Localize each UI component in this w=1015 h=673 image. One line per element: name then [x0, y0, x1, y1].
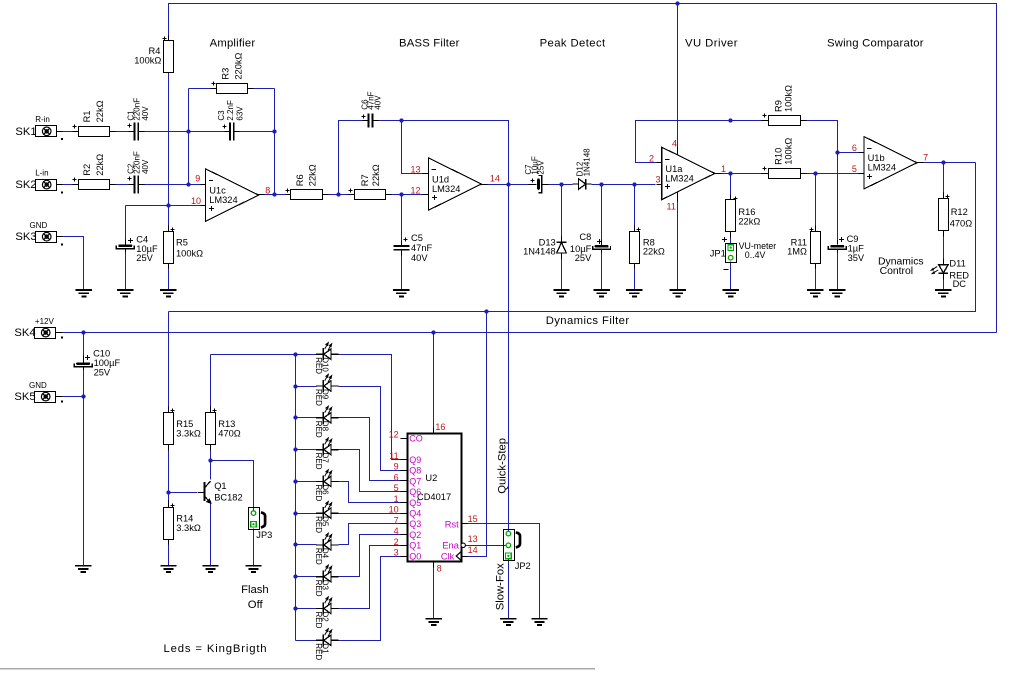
- svg-text:R5: R5: [176, 238, 188, 248]
- svg-text:22kΩ: 22kΩ: [95, 154, 105, 176]
- svg-text:4: 4: [672, 138, 677, 148]
- wire feedback top row to U1d output column: [402, 121, 509, 185]
- wire D7 anode to U2: [339, 450, 401, 492]
- wire D3 cathode to bus: [296, 576, 317, 578]
- svg-text:C8: C8: [579, 232, 591, 242]
- junction LED bus at D6 row: [293, 479, 297, 483]
- wire R4 column down to U1c pin10 node: [168, 73, 170, 206]
- junction U1b output / R12 column: [941, 160, 945, 164]
- resistor R3: [217, 84, 248, 94]
- wire SK3 to ground: [63, 237, 84, 291]
- svg-text:Quick-Step: Quick-Step: [497, 438, 509, 494]
- connector SK4: [35, 328, 56, 339]
- wire R-in row SK1 to C1: [63, 131, 73, 133]
- ground: [670, 290, 686, 296]
- svg-text:1N4148: 1N4148: [523, 246, 556, 256]
- svg-text:JP3: JP3: [256, 530, 272, 540]
- U2 pin 11 Q9: [401, 459, 408, 461]
- svg-text:Q8: Q8: [409, 466, 421, 476]
- svg-text:U1b: U1b: [868, 153, 885, 163]
- svg-text:Q9: Q9: [409, 455, 421, 465]
- svg-text:R-in: R-in: [35, 115, 50, 124]
- svg-text:U1a: U1a: [665, 164, 683, 174]
- resistor R12: [939, 199, 949, 231]
- svg-text:6: 6: [394, 472, 399, 482]
- wire C3 right to feedback node: [240, 131, 275, 133]
- svg-text:SK5: SK5: [14, 391, 35, 403]
- junction U1d output / JP2 column: [506, 182, 510, 186]
- junction collector/JP3 node: [208, 458, 212, 462]
- svg-text:8: 8: [437, 564, 442, 574]
- resistor R1: [79, 127, 110, 137]
- LED D3: [316, 565, 339, 583]
- svg-text:R7: R7: [360, 174, 370, 186]
- ground: [202, 566, 218, 572]
- svg-text:R3: R3: [221, 68, 231, 80]
- junction R6/R7/C6 node: [336, 192, 340, 196]
- LED D2: [316, 597, 339, 615]
- wire D11 to ground: [943, 280, 945, 291]
- svg-text:5: 5: [852, 164, 857, 174]
- svg-text:RED: RED: [314, 484, 323, 501]
- svg-text:RED: RED: [314, 580, 323, 597]
- ground: [76, 290, 92, 296]
- svg-text:GND: GND: [29, 381, 47, 390]
- wire U1a pin2 loop: [636, 121, 731, 163]
- junction LED bus at D7 row: [293, 447, 297, 451]
- wire U1a pin4 to top: [677, 4, 679, 147]
- junction R11 tap on pin5 row: [813, 171, 817, 175]
- svg-text:3: 3: [394, 548, 399, 558]
- resistor R2: [79, 180, 110, 190]
- svg-text:R6: R6: [295, 174, 305, 186]
- wire R15 to base node: [168, 451, 170, 501]
- svg-text:LM324: LM324: [665, 173, 693, 183]
- svg-text:U1d: U1d: [432, 174, 449, 184]
- capacitor C2: [135, 176, 139, 194]
- ground: [393, 290, 409, 296]
- svg-text:Q2: Q2: [409, 530, 421, 540]
- svg-text:R9: R9: [774, 100, 784, 112]
- svg-text:Rst: Rst: [445, 519, 459, 529]
- junction LED bus at D8 row: [293, 415, 297, 419]
- wire R9 right to U1b pin6 column: [807, 121, 838, 153]
- capacitor C6: [368, 114, 372, 128]
- svg-text:Slow-Fox: Slow-Fox: [495, 563, 507, 610]
- svg-text:SK3: SK3: [15, 231, 36, 243]
- capacitor C1: [135, 122, 139, 140]
- junction U1a pin4 tap on top wire: [675, 1, 679, 5]
- wire C7 to D13 node: [543, 184, 573, 186]
- resistor R10: [769, 169, 801, 179]
- capacitor C5: [393, 246, 409, 250]
- resistor R6: [291, 190, 323, 200]
- svg-text:47nF: 47nF: [411, 243, 433, 253]
- jumper JP3: [249, 508, 260, 530]
- wire R8 column: [634, 185, 636, 226]
- junction R-in row / feedback column: [186, 129, 190, 133]
- junction LED bus at D5 row: [293, 511, 297, 515]
- svg-text:3.3kΩ: 3.3kΩ: [176, 428, 201, 438]
- svg-text:Swing Comparator: Swing Comparator: [827, 37, 924, 49]
- wire D2 cathode to bus: [296, 608, 317, 610]
- svg-text:7: 7: [923, 152, 928, 162]
- resistor R5: [164, 232, 174, 264]
- ground: [829, 290, 845, 296]
- svg-text:9: 9: [394, 462, 399, 472]
- wire D10 cathode to bus: [296, 354, 317, 356]
- svg-text:LM324: LM324: [868, 163, 896, 173]
- svg-text:25V: 25V: [136, 253, 153, 263]
- svg-text:1: 1: [394, 494, 399, 504]
- svg-text:C5: C5: [411, 233, 423, 243]
- svg-text:25V: 25V: [94, 367, 111, 377]
- svg-text:D11: D11: [949, 259, 965, 269]
- wire L-in row SK2 to C2: [63, 184, 73, 186]
- svg-text:LM324: LM324: [432, 184, 460, 194]
- svg-text:RED: RED: [314, 357, 323, 374]
- resistor R4: [164, 41, 174, 73]
- wire C1 to C3 row: [145, 131, 225, 133]
- wire D1 cathode to bus: [296, 640, 317, 642]
- wire U1d output node: [488, 184, 529, 186]
- resistor R13: [206, 413, 216, 445]
- connector SK3: [36, 232, 57, 243]
- LED D11: [931, 258, 948, 279]
- svg-text:GND: GND: [30, 221, 48, 230]
- svg-text:16: 16: [435, 422, 445, 432]
- op-amp U1c: [206, 169, 259, 221]
- U2 pin 3 Q0: [401, 556, 408, 558]
- svg-text:Flash: Flash: [241, 584, 269, 596]
- svg-text:RED: RED: [314, 643, 323, 660]
- svg-text:Clk: Clk: [441, 551, 455, 561]
- svg-text:Q3: Q3: [409, 519, 421, 529]
- jumper JP1: [726, 244, 737, 263]
- resistor R14: [164, 508, 174, 540]
- wire U2 pin16 column: [433, 333, 435, 428]
- LED D1: [316, 629, 339, 647]
- svg-text:Q6: Q6: [409, 487, 421, 497]
- svg-text:22kΩ: 22kΩ: [308, 164, 318, 186]
- wire C8 column: [601, 185, 603, 240]
- junction LED bus at D3 row: [293, 574, 297, 578]
- op-amp U1b: [864, 137, 917, 189]
- svg-text:100kΩ: 100kΩ: [784, 138, 794, 165]
- LED D4: [316, 533, 339, 551]
- wire D9 anode to U2: [339, 387, 401, 471]
- IC U2 CD4017: [408, 434, 462, 562]
- diode D13: [557, 236, 567, 259]
- svg-text:Q4: Q4: [409, 509, 421, 519]
- op-amp U1a: [662, 147, 715, 199]
- ground: [593, 290, 609, 296]
- junction U1c output node: [272, 192, 276, 196]
- svg-text:C3: C3: [217, 110, 226, 121]
- svg-text:R10: R10: [774, 148, 784, 165]
- svg-text:1N4148: 1N4148: [582, 148, 591, 177]
- svg-text:7: 7: [394, 515, 399, 525]
- svg-text:12: 12: [410, 186, 420, 196]
- svg-text:Leds = KingBrigth: Leds = KingBrigth: [164, 643, 268, 655]
- svg-text:63V: 63V: [235, 106, 244, 121]
- svg-text:1MΩ: 1MΩ: [787, 247, 807, 257]
- svg-text:R1: R1: [82, 111, 92, 123]
- wire JP1 to ground: [730, 262, 732, 291]
- wire D5 cathode to bus: [296, 513, 317, 515]
- svg-text:U1c: U1c: [209, 185, 226, 195]
- svg-text:2.2nF: 2.2nF: [226, 100, 235, 121]
- U2 pin 2 Q1: [401, 545, 408, 547]
- wire R10 right to U1b pin5: [807, 173, 859, 175]
- junction SK5/C10 node: [81, 394, 85, 398]
- junction C8 tap: [599, 182, 603, 186]
- junction D13 tap: [559, 182, 563, 186]
- svg-text:470Ω: 470Ω: [950, 219, 973, 229]
- svg-text:R2: R2: [82, 164, 92, 176]
- wire R7 to U1d pin12: [392, 194, 423, 196]
- LED D9: [316, 374, 339, 392]
- svg-text:VU Driver: VU Driver: [685, 37, 738, 49]
- svg-text:Q1: Q1: [409, 541, 421, 551]
- wire C6 branch up and over: [339, 121, 363, 195]
- wire R13 bottom to collector node: [210, 451, 212, 480]
- junction R9-left / U1a output column: [728, 118, 732, 122]
- wire U1c pin10 row: [126, 205, 201, 207]
- wire U2 Ena to JP2 pin2: [466, 545, 506, 547]
- U2 pin 7 Q3: [401, 523, 408, 525]
- svg-text:40V: 40V: [141, 106, 150, 121]
- wire D4 cathode to bus: [296, 544, 317, 546]
- wire U2 pin8 to ground: [433, 562, 435, 568]
- junction C6/pin13 feedback node: [399, 118, 403, 122]
- U2 pin 9 Q8: [401, 470, 408, 472]
- svg-text:BASS Filter: BASS Filter: [399, 37, 460, 49]
- U2 pin 6 Q7: [401, 480, 408, 482]
- wire R9 left: [731, 120, 762, 122]
- svg-text:RED: RED: [314, 453, 323, 470]
- svg-text:Q1: Q1: [214, 481, 226, 491]
- svg-text:Q7: Q7: [409, 476, 421, 486]
- wire pin6 row: [838, 152, 859, 154]
- diode D12: [573, 179, 592, 190]
- wire D10 row to R13 corner: [211, 354, 317, 356]
- wire D4 anode to U2: [339, 524, 401, 545]
- wire U1c output to R6: [265, 194, 286, 196]
- wire D2 anode to U2: [339, 546, 401, 609]
- connector SK1: [36, 126, 57, 137]
- resistor R15: [164, 413, 174, 445]
- svg-text:100kΩ: 100kΩ: [176, 249, 203, 259]
- svg-text:3: 3: [655, 174, 660, 184]
- svg-text:JP1: JP1: [710, 248, 726, 258]
- svg-text:0..4V: 0..4V: [745, 250, 766, 260]
- wire D5 anode to U2: [339, 513, 401, 515]
- svg-text:SK1: SK1: [15, 126, 36, 138]
- U2 pin 10 Q4: [401, 513, 408, 515]
- op-amp U1d: [428, 158, 481, 210]
- wire D8 cathode to bus: [296, 417, 317, 419]
- svg-text:SK4: SK4: [14, 327, 35, 339]
- ground: [500, 619, 516, 625]
- junction R7/C5/pin12 node: [399, 192, 403, 196]
- svg-text:CD4017: CD4017: [417, 492, 451, 502]
- svg-text:SK2: SK2: [15, 179, 36, 191]
- wire D1 anode to U2: [339, 557, 401, 641]
- svg-text:L-in: L-in: [35, 169, 48, 178]
- wire R16 column: [730, 174, 732, 195]
- wire D6 anode to U2: [339, 482, 401, 503]
- svg-text:40V: 40V: [411, 253, 428, 263]
- ground: [75, 566, 91, 572]
- wire C4 column: [125, 206, 127, 240]
- wire C2 to U1c pin 9: [145, 184, 201, 186]
- svg-text:22kΩ: 22kΩ: [95, 100, 105, 122]
- connector SK2: [36, 180, 57, 191]
- LED D7: [316, 438, 339, 456]
- svg-text:22kΩ: 22kΩ: [643, 247, 665, 257]
- wire R14 to ground: [168, 545, 170, 566]
- svg-text:RED: RED: [314, 516, 323, 533]
- transistor Q1: [198, 481, 211, 503]
- wire C9 column: [837, 153, 839, 241]
- wire D13 column: [561, 185, 563, 237]
- ground: [531, 619, 547, 625]
- junction LED bus at D4 row: [293, 542, 297, 546]
- ground: [245, 566, 261, 572]
- wire R16 to JP1: [730, 238, 732, 245]
- svg-text:R4: R4: [149, 46, 161, 56]
- svg-text:8: 8: [265, 185, 270, 195]
- svg-text:2: 2: [394, 537, 399, 547]
- svg-text:40V: 40V: [141, 159, 150, 174]
- wire +12V rail: [62, 332, 997, 334]
- wire JP2 pin3 to ground: [508, 559, 510, 619]
- svg-text:220kΩ: 220kΩ: [233, 52, 243, 79]
- svg-text:DC: DC: [953, 279, 967, 289]
- svg-text:22kΩ: 22kΩ: [371, 164, 381, 186]
- svg-text:10: 10: [191, 196, 201, 206]
- wire R5 column: [168, 206, 170, 226]
- capacitor C10: [76, 362, 90, 365]
- ground: [807, 290, 823, 296]
- junction L-in row / feedback column: [186, 182, 190, 186]
- svg-text:R16: R16: [738, 207, 755, 217]
- ground: [117, 290, 133, 296]
- ground: [426, 619, 442, 625]
- svg-text:RED: RED: [314, 612, 323, 629]
- wire Q1 emitter to ground: [210, 503, 212, 566]
- svg-text:Peak Detect: Peak Detect: [540, 37, 606, 49]
- resistor R11: [811, 232, 821, 264]
- svg-text:4: 4: [394, 526, 399, 536]
- svg-text:15: 15: [468, 514, 478, 524]
- capacitor C8: [595, 245, 609, 248]
- wire C10 column: [83, 333, 85, 356]
- wire clock column down to U2 Clk: [468, 312, 487, 557]
- svg-text:35V: 35V: [848, 253, 865, 263]
- wire LED cathode bus: [295, 355, 297, 641]
- junction LED bus top: [293, 352, 297, 356]
- svg-text:11: 11: [389, 451, 398, 461]
- junction C3/R3 feedback column: [272, 129, 276, 133]
- LED D10: [316, 343, 339, 361]
- junction U2 pin16 tap on +12V rail: [431, 330, 435, 334]
- jumper JP2: [504, 530, 515, 561]
- svg-text:+12V: +12V: [35, 317, 55, 326]
- wire R13 top from LED bus row: [210, 355, 212, 407]
- svg-text:1: 1: [721, 164, 726, 174]
- U2 pin 15 Rst: [462, 523, 468, 525]
- wire D10 anode to U2: [339, 355, 401, 460]
- U2 pin 14 Clk with clock wedge: [456, 552, 461, 561]
- wire R12 column: [943, 163, 945, 193]
- junction R4/R5/pin10 node: [166, 203, 170, 207]
- wire R6 to R7 node: [329, 194, 349, 196]
- wire D7 cathode to bus: [296, 449, 317, 451]
- ground: [160, 566, 176, 572]
- U2 pin 4 Q2: [401, 534, 408, 536]
- wire SK5 row: [63, 396, 84, 398]
- junction LED bus at D2 row: [293, 606, 297, 610]
- svg-text:9: 9: [195, 173, 200, 183]
- resistor R8: [630, 232, 640, 264]
- wire feedback column R3-left to pin9 row: [188, 89, 190, 185]
- wire dynamics column to R15: [168, 312, 170, 407]
- connector SK5: [35, 392, 56, 403]
- junction U1a output / R16 column: [728, 171, 732, 175]
- svg-text:6: 6: [852, 143, 857, 153]
- U2 pin 13 Ena with bubble: [461, 543, 465, 547]
- wire R11 column: [815, 174, 817, 226]
- svg-text:40V: 40V: [373, 95, 382, 110]
- svg-text:C4: C4: [136, 234, 148, 244]
- svg-text:100kΩ: 100kΩ: [784, 85, 794, 112]
- ground: [553, 290, 569, 296]
- LED D6: [316, 470, 339, 488]
- svg-text:12: 12: [389, 430, 399, 440]
- junction clock column on dynamics row: [484, 309, 488, 313]
- wire D12 to C8 node: [592, 184, 656, 186]
- LED D8: [316, 406, 339, 424]
- wire U1a pin11 to ground: [677, 192, 679, 202]
- svg-text:14: 14: [468, 545, 478, 555]
- wire pin13 branch: [402, 121, 423, 174]
- window border artifact: [0, 668, 595, 670]
- svg-text:13: 13: [468, 534, 478, 544]
- resistor R7: [355, 190, 386, 200]
- junction R15/R14/base node: [166, 490, 170, 494]
- wire U1a output: [722, 173, 762, 175]
- svg-text:13: 13: [410, 164, 420, 174]
- wire base row to Q1: [169, 492, 198, 494]
- svg-text:22kΩ: 22kΩ: [738, 217, 760, 227]
- wire collector node to JP3: [211, 461, 254, 512]
- junction C10 tap on +12V rail: [81, 330, 85, 334]
- wire U1b output: [924, 162, 976, 164]
- ground: [723, 290, 739, 296]
- svg-text:3.3kΩ: 3.3kΩ: [176, 523, 201, 533]
- capacitor C7: [537, 178, 540, 190]
- svg-text:Q5: Q5: [409, 498, 421, 508]
- wire C6 right to feedback node: [379, 120, 402, 122]
- wire D3 anode to U2: [339, 535, 401, 577]
- svg-text:LM324: LM324: [209, 195, 237, 205]
- ground: [160, 290, 176, 296]
- svg-text:Q0: Q0: [409, 551, 421, 561]
- wire D8 anode to U2: [339, 418, 401, 481]
- wire C5 column: [401, 195, 403, 241]
